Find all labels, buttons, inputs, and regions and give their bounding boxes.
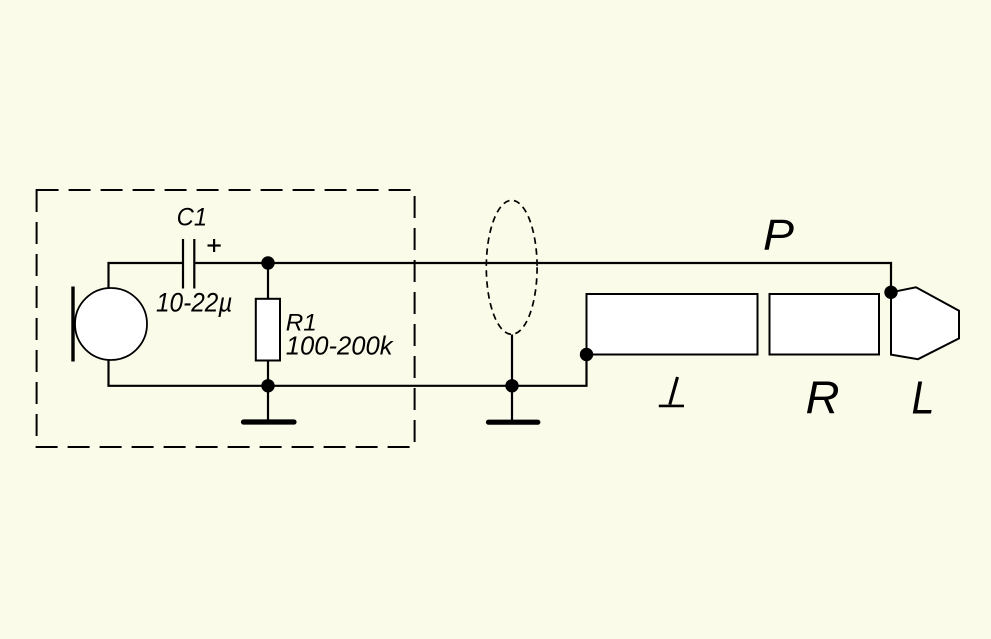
- cable shield (dashed ellipse): [486, 200, 537, 334]
- svg-text:P: P: [763, 210, 795, 259]
- capacitor C1 (plates): [183, 239, 194, 289]
- label ground (inverted T) for sleeve: [659, 377, 684, 406]
- wire: shield to bottom rail: [511, 335, 513, 386]
- C1 polarity + sign: [208, 239, 221, 252]
- wire: junction down to R1: [267, 263, 269, 299]
- wire: shield junction to jack sleeve: [512, 355, 587, 386]
- svg-text:R: R: [806, 372, 840, 424]
- node: shield / ground junction: [505, 379, 518, 392]
- svg-text:C1: C1: [177, 204, 208, 232]
- node: R1 / ground junction: [261, 379, 274, 392]
- jack sleeve segment (ground): [587, 294, 758, 355]
- node: C1 / R1 junction: [261, 256, 274, 269]
- ground symbol (middle): [489, 386, 538, 422]
- svg-text:100-200k: 100-200k: [286, 331, 395, 361]
- microphone M1 (electret capsule: circle + membrane bar): [73, 287, 147, 362]
- resistor R1: [256, 299, 280, 361]
- ground symbol (left): [244, 386, 295, 422]
- node: sleeve / bottom rail junction: [580, 348, 593, 361]
- wire: mic top to C1 left plate: [109, 263, 183, 288]
- dashed enclosure box (mic capsule boundary): [37, 190, 415, 447]
- node: tip / net P junction: [884, 286, 897, 299]
- jack ring segment (R): [770, 294, 880, 355]
- svg-text:L: L: [912, 372, 935, 424]
- svg-text:10-22µ: 10-22µ: [156, 287, 232, 317]
- jack tip (L): [891, 287, 959, 359]
- wire: R1 bottom to bottom rail: [267, 361, 269, 386]
- wire: ground junction to shield junction (bottom rail middle): [268, 385, 512, 387]
- wire: mic bottom to ground junction (bottom rail left): [109, 360, 269, 386]
- wire: C1 right plate to tip (net P, top rail): [195, 263, 891, 292]
